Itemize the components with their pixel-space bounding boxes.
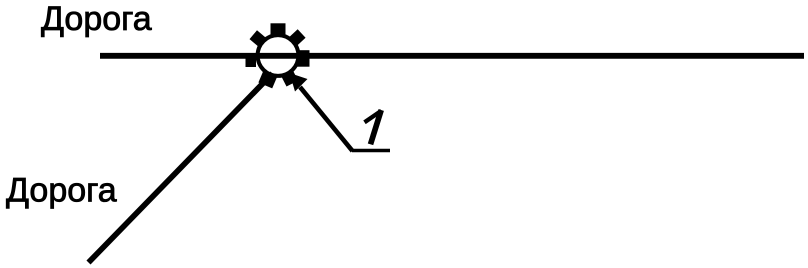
leader arrow to symbol 1 <box>290 73 391 151</box>
wire: diagonal road line <box>89 74 273 263</box>
svg-text:Дорога: Дорога <box>6 172 117 210</box>
svg-text:Дорога: Дорога <box>41 0 152 38</box>
wire: horizontal road line <box>100 53 804 59</box>
interchange symbol (circle with teeth) <box>246 23 310 88</box>
label 1 (drawn digit) <box>365 110 382 144</box>
